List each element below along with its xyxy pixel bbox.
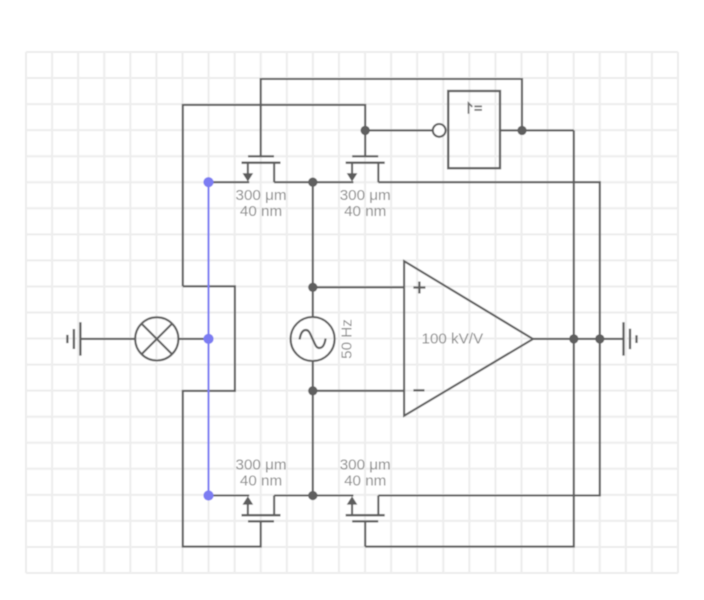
svg-text:300 μm: 300 μm — [236, 187, 287, 204]
svg-text:300 μm: 300 μm — [340, 456, 391, 473]
svg-text:40 nm: 40 nm — [240, 203, 282, 220]
svg-text:40 nm: 40 nm — [240, 473, 282, 490]
svg-text:50 Hz: 50 Hz — [339, 319, 356, 359]
svg-text:300 μm: 300 μm — [236, 456, 287, 473]
svg-text:300 μm: 300 μm — [340, 187, 391, 204]
svg-text:100 kV/V: 100 kV/V — [422, 331, 485, 348]
svg-text:40 nm: 40 nm — [344, 203, 386, 220]
svg-text:40 nm: 40 nm — [344, 473, 386, 490]
